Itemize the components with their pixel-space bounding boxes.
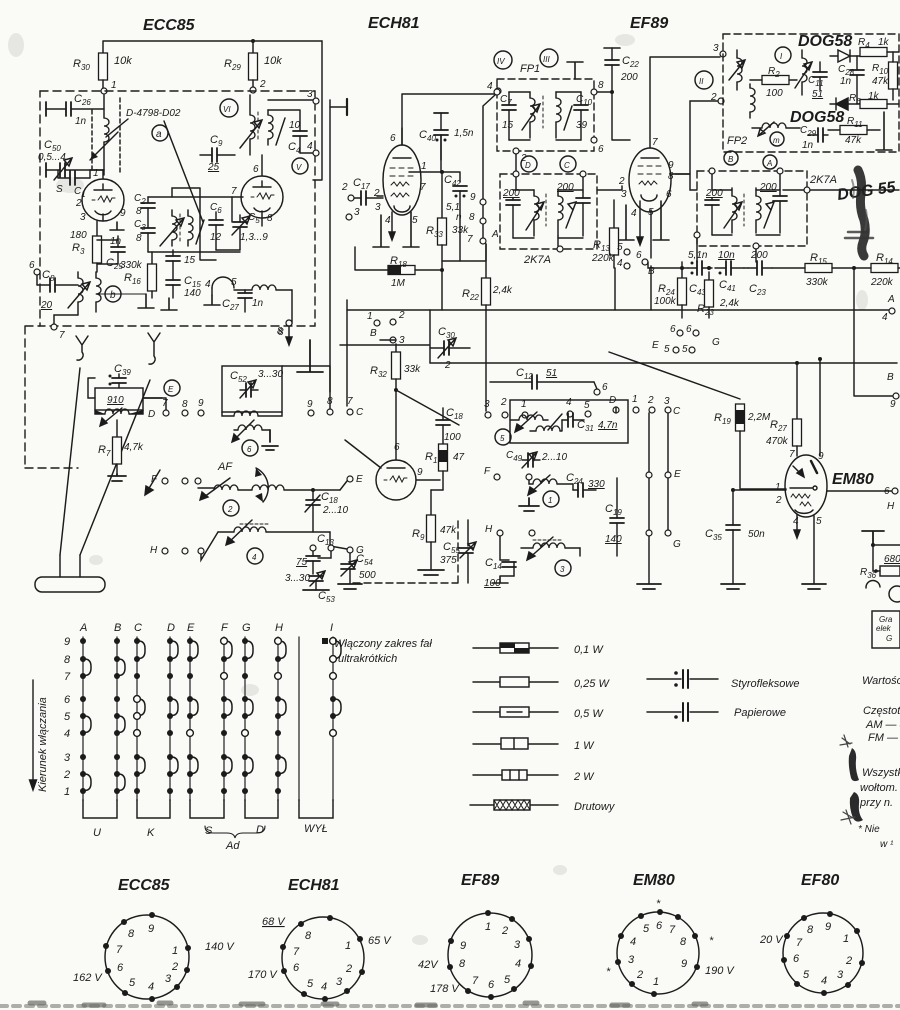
circled II [695,71,713,89]
switch H1 contact [275,788,281,794]
node 3 [268,99,313,101]
pin 5 [794,981,800,987]
svg-text:6: 6 [884,486,890,497]
switch G4 open contact [242,730,249,737]
bracket K [137,800,170,818]
switch C1 contact [134,788,140,794]
svg-text:F: F [151,474,158,485]
switch A5 contact [80,713,86,719]
FP1 wires [509,92,581,140]
pin [327,915,333,921]
svg-text:A: A [491,229,499,240]
svg-text:wołtom.: wołtom. [860,782,898,794]
svg-text:5,1n: 5,1n [688,250,708,261]
pin 3 [615,959,621,965]
wire EM80 grid left [740,488,786,490]
svg-text:FM — 1: FM — 1 [868,732,900,744]
switch H7 open contact [275,673,282,680]
svg-text:39: 39 [576,120,588,131]
ink smudge 2 [850,792,863,822]
svg-text:4,7n: 4,7n [598,420,618,431]
svg-text:a: a [156,129,162,140]
pin 6 [105,968,111,974]
resistor R15 [805,264,832,273]
speaker circle [889,586,900,602]
switch H9 open contact [275,638,282,645]
circled 2 [223,500,239,516]
switch C7 contact [134,673,140,679]
circled 1 [543,491,559,507]
svg-text:68 V: 68 V [262,916,286,928]
pin 4 [821,990,827,996]
svg-text:9: 9 [668,160,674,171]
switch I4 open contact [330,730,337,737]
pin 1 [185,945,191,951]
circled 3 [555,560,571,576]
switch G1 contact [242,788,248,794]
svg-text:3: 3 [621,189,627,200]
svg-text:47k: 47k [440,525,457,536]
coil det primary [737,58,742,82]
switch A2 contact [80,771,86,777]
svg-text:0,25 W: 0,25 W [574,678,610,690]
ink smudge 1 [849,748,859,781]
switch A7 contact [80,673,86,679]
svg-text:8: 8 [136,233,142,244]
switch blank line [298,637,300,800]
wire x356 from node3 [380,322,396,340]
svg-text:2 W: 2 W [573,771,595,783]
ground C53 [303,589,329,591]
svg-text:8: 8 [136,206,142,217]
svg-text:170 V: 170 V [248,969,278,981]
svg-text:7: 7 [796,937,803,949]
svg-text:47k: 47k [845,135,862,146]
scan bottom edge [0,1004,900,1008]
circled b [105,286,121,302]
pin 3 [526,936,532,942]
node 2 right [718,98,724,104]
svg-text:33k: 33k [404,364,421,375]
pin 9 [694,964,700,970]
switch I7 open contact [330,673,337,680]
svg-text:5: 5 [682,344,688,355]
ground EM80 [802,584,826,589]
switch D bridge 9-8 [170,641,178,659]
svg-text:9: 9 [417,467,423,478]
resistor R14 [871,264,898,273]
svg-text:w ¹: w ¹ [880,839,894,850]
svg-text:3: 3 [514,939,521,951]
switch A bridge 2-1 [83,774,91,791]
svg-text:3: 3 [336,976,343,988]
svg-text:4: 4 [148,981,154,993]
vertical x347 [346,300,348,406]
capacitor C52 box [222,366,282,412]
svg-text:5: 5 [504,974,511,986]
svg-text:7: 7 [64,671,71,683]
svg-text:ECH81: ECH81 [288,877,340,894]
node 6 B [642,259,648,265]
FP1 terminal 2 [513,148,519,154]
wire diagonal R32 to mixer [396,390,459,425]
svg-text:I: I [330,622,333,634]
svg-text:51: 51 [812,89,823,100]
switch G bridge 3-2 [245,757,253,774]
coil section 1 [533,479,557,484]
wire C22 to EF89 [612,92,630,140]
arrow kierunek [30,680,37,790]
ground right low [862,531,884,545]
svg-text:8: 8 [267,213,273,224]
svg-text:6: 6 [293,962,300,974]
svg-text:7: 7 [669,924,676,936]
svg-text:500: 500 [359,570,376,581]
svg-text:D: D [525,161,531,170]
svg-text:II: II [699,77,704,86]
switch column B line [116,637,118,800]
cathode tap bar [110,222,124,230]
svg-text:2: 2 [500,397,507,408]
pin 9 [827,911,833,917]
pin 6 [657,909,663,915]
coil section 4 [234,527,266,532]
capacitor C16 15 [172,250,174,256]
pin 6 [281,968,287,974]
wire EM80 pin9 [819,359,821,456]
coil 6b [238,425,262,430]
resistor R24 [681,262,683,278]
svg-text:0,1 W: 0,1 W [574,644,604,656]
resistor R16 [151,252,153,264]
node 3 left [346,214,352,220]
wire right low [873,544,900,546]
diode DOG58 no2 [830,98,860,110]
switch E8 contact [187,656,193,662]
svg-text:V: V [296,163,302,172]
svg-text:H: H [485,524,493,535]
svg-text:* Nie: * Nie [858,824,880,835]
svg-text:przy n.: przy n. [859,797,893,809]
pin 3 [344,988,350,994]
pin 5 [638,913,644,919]
switch E9 contact [187,638,193,644]
capacitor C27 [244,290,246,293]
legend resistor drutowy [470,804,558,806]
svg-text:2: 2 [63,769,70,781]
node row 1 B [374,320,380,326]
svg-text:12: 12 [210,232,222,243]
node 1 [101,88,107,94]
switch H5 contact [275,713,281,719]
svg-text:4: 4 [252,553,257,562]
svg-text:2: 2 [341,182,348,193]
resistor R4 [860,48,887,57]
circled C [560,156,576,172]
svg-text:1: 1 [64,786,70,798]
svg-text:1,5n: 1,5n [454,128,474,139]
node row 2 3 [390,319,396,325]
svg-text:200: 200 [750,250,768,261]
svg-text:2K7A: 2K7A [809,174,837,186]
svg-text:8: 8 [327,396,333,407]
switch D6 contact [167,696,173,702]
switch D bridge 3-2 [170,757,178,774]
wire IF3 left [675,174,697,190]
pin 6 [488,994,494,1000]
resistor R9 [430,490,432,515]
svg-text:180: 180 [70,230,87,241]
coil section 5 [519,415,543,420]
switch B9 contact [114,638,120,644]
svg-text:VI: VI [223,105,231,114]
pin 8 [801,915,807,921]
svg-text:1: 1 [421,161,427,172]
ground section3 [579,548,581,556]
svg-text:0,5...4: 0,5...4 [38,152,66,163]
svg-text:G: G [673,539,681,550]
svg-text:2: 2 [501,925,508,937]
EF89 cathode arrow [637,201,643,245]
svg-text:3: 3 [664,396,670,407]
svg-text:9: 9 [681,958,687,970]
svg-text:140: 140 [184,288,201,299]
legend note dot [322,638,328,644]
ground b1 [138,294,154,308]
resistor R10 [889,62,898,89]
section 5 box [510,400,628,443]
resistor R3 [96,221,98,236]
svg-text:1: 1 [775,482,781,493]
svg-text:330k: 330k [806,277,829,288]
svg-text:5: 5 [617,242,623,253]
svg-text:1n: 1n [110,236,122,247]
coil C27 choke [252,285,276,290]
switch D7 contact [167,673,173,679]
switch column C line [136,637,138,800]
bracket U [83,800,117,818]
dashed box IF2 [500,174,597,249]
dashed box IF3 [697,171,807,246]
svg-text:A: A [79,622,87,634]
svg-text:DOG58: DOG58 [790,109,844,126]
switch B2 contact [114,771,120,777]
svg-text:1,3...9: 1,3...9 [240,232,268,243]
wire R32 to converter anode [395,390,397,448]
svg-text:1: 1 [111,80,117,91]
svg-text:Ad: Ad [225,840,240,852]
contacts G center [646,530,652,536]
capacitor C40 [440,113,442,130]
svg-text:3: 3 [713,43,719,54]
coil det coupling [750,88,755,112]
svg-text:25: 25 [207,162,220,173]
svg-text:E: E [652,340,659,351]
circled 5 [495,429,511,445]
svg-text:3: 3 [354,207,360,218]
circled B [724,151,738,165]
svg-text:200: 200 [759,182,777,193]
capacitor C43 [688,267,712,269]
switch column I line [332,637,334,800]
switch I bridge 9-8 [333,641,341,659]
svg-text:ECC85: ECC85 [143,17,196,34]
node 2 [250,87,256,93]
svg-text:DOG58: DOG58 [798,33,852,50]
svg-text:C: C [673,406,681,417]
svg-text:D: D [256,824,264,836]
switch C6 open contact [134,696,141,703]
coil FP1 secondary [556,98,561,122]
converter triode [376,460,416,500]
svg-text:3: 3 [64,752,71,764]
svg-text:5: 5 [816,516,822,527]
switch C8 contact [134,656,140,662]
svg-text:2: 2 [398,310,405,321]
pin 2 [859,960,865,966]
svg-text:100k: 100k [654,296,677,307]
svg-text:1: 1 [653,976,659,988]
circled IV [494,51,512,69]
circled 6 [242,440,258,456]
svg-text:4: 4 [793,516,799,527]
svg-text:B: B [728,155,734,164]
ground R9 [418,570,444,575]
svg-text:IV: IV [497,57,505,66]
svg-text:5: 5 [231,277,237,288]
svg-text:Styrofleksowe: Styrofleksowe [731,678,799,690]
coil section 2 [198,487,214,489]
ground EF89 a [618,205,634,240]
pin 5 [122,990,128,996]
svg-text:7: 7 [789,449,795,460]
pin 4 [322,996,328,1002]
svg-text:1: 1 [843,933,849,945]
antenna fork 2 [148,333,160,364]
switch B3 contact [114,754,120,760]
switch E1 contact [187,788,193,794]
switch B bridge 5-4 [117,716,125,733]
capacitor C1 [58,177,90,179]
switch column F line [223,637,225,800]
svg-text:1n: 1n [840,76,852,87]
svg-text:2: 2 [444,360,451,371]
svg-text:375: 375 [440,555,457,566]
switch G7 contact [242,673,248,679]
svg-text:2...10: 2...10 [322,505,348,516]
svg-text:2,2M: 2,2M [747,412,771,423]
svg-text:6: 6 [598,144,604,155]
pin 2 [509,916,515,922]
svg-text:8: 8 [598,80,604,91]
vertical wires center [616,407,668,584]
svg-text:3: 3 [375,202,381,213]
switch I bridge 6-5 [333,699,341,716]
svg-text:U: U [93,827,101,839]
switch H4 contact [275,730,281,736]
capacitor C42 [453,186,467,191]
svg-text:*: * [656,898,661,910]
capacitor C7 [508,92,510,105]
ground ECH81 k [373,215,389,247]
IF3 terminals [709,168,715,174]
svg-text:4: 4 [487,81,493,92]
circled VI [220,99,238,117]
svg-text:7: 7 [293,946,300,958]
svg-text:20: 20 [40,300,53,311]
svg-text:4: 4 [515,958,521,970]
pin 5 [301,991,307,997]
switch A9 contact [80,638,86,644]
dashed box FM tuner [40,91,315,326]
capacitor C35 [732,490,734,525]
switch D8 contact [167,656,173,662]
svg-text:G: G [886,634,892,643]
svg-text:1: 1 [548,496,552,505]
circled a [152,125,168,141]
svg-text:2,4k: 2,4k [492,285,513,296]
switch C bridge 6-5 [137,699,145,716]
svg-text:5: 5 [412,215,418,226]
switch F3 contact [221,754,227,760]
svg-text:220k: 220k [870,277,894,288]
switch H bridge 6-5 [278,699,286,716]
svg-text:ECH81: ECH81 [368,15,420,32]
coil 6a [234,411,258,416]
ground R7 [108,474,126,481]
svg-text:7: 7 [420,182,426,193]
svg-text:8: 8 [469,212,475,223]
switch A1 contact [80,788,86,794]
svg-text:47: 47 [453,452,465,463]
svg-text:*: * [709,935,714,947]
resistor R19 [736,404,745,431]
svg-text:Gra: Gra [879,615,893,624]
dashed box antenna left [25,326,78,468]
wire right edge down [313,41,322,180]
antenna fork 1 [76,336,88,360]
svg-text:m: m [773,136,780,145]
svg-text:7: 7 [652,137,658,148]
svg-text:15: 15 [502,120,514,131]
svg-text:Papierowe: Papierowe [734,707,786,719]
pin 1 [854,928,860,934]
svg-text:6: 6 [656,920,663,932]
svg-text:51: 51 [546,368,557,379]
leader lines [106,119,203,222]
switch E bridge 3-2 [190,757,198,774]
pin 1 [357,936,363,942]
circled III [540,49,558,67]
brace Ad [205,826,265,838]
node 4 top wire [483,95,495,238]
capacitor C25 [117,236,119,247]
pin 2 [184,967,190,973]
dashed box converter bottom [353,520,458,583]
coil FP1 primary [530,98,535,122]
svg-text:7: 7 [162,398,168,409]
svg-text:A: A [887,294,895,305]
wire EM80 target [733,489,786,491]
switch A6 contact [80,696,86,702]
pin 2 [359,969,365,975]
svg-text:5: 5 [643,923,650,935]
switch H bridge 3-2 [278,757,286,774]
bracket D [245,800,278,818]
ink smudge DOG55 [858,170,865,256]
svg-text:EM80: EM80 [832,471,874,488]
FP1 terminal 4 [494,89,500,95]
